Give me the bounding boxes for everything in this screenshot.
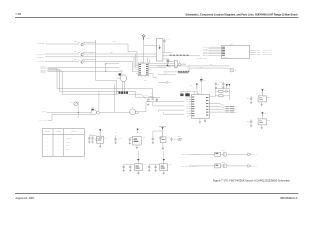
- supply arrow mic bias: [196, 84, 198, 86]
- U561 grounds: [123, 169, 125, 170]
- svg-text:EN: EN: [187, 115, 189, 117]
- svg-text:CR401: CR401: [145, 95, 149, 97]
- svg-text:OPT SEL 2: OPT SEL 2: [55, 131, 61, 133]
- svg-text:SEC CLK SEL: SEC CLK SEL: [263, 54, 273, 56]
- svg-text:SPI CS MOSI: SPI CS MOSI: [37, 61, 45, 63]
- IC U402: [138, 63, 149, 76]
- wire U402 to J401 b: [152, 65, 171, 67]
- capacitor C563: [148, 165, 150, 167]
- svg-text:Q562: Q562: [222, 162, 225, 164]
- svg-text:SSI RDY: SSI RDY: [41, 72, 47, 74]
- capacitor C455 polarized: [200, 79, 203, 80]
- transistor Q401: [178, 63, 181, 66]
- U404 bottom stub 2: [204, 118, 206, 120]
- svg-text:VBUS: VBUS: [235, 106, 238, 108]
- svg-text:R471: R471: [119, 137, 122, 139]
- supply arrow for U551: [261, 89, 263, 91]
- svg-text:U402: U402: [140, 61, 143, 63]
- C458 ground: [152, 142, 154, 143]
- option select table: [42, 129, 84, 157]
- wire bend right: [96, 80, 117, 82]
- svg-text:No Secure: No Secure: [66, 138, 72, 140]
- stage 3 output wire: [84, 60, 133, 62]
- svg-text:U552: U552: [267, 120, 270, 122]
- supply arrow Q451: [99, 129, 101, 131]
- IC U451 body: [222, 45, 250, 58]
- svg-text:C425: C425: [169, 61, 172, 63]
- diode VR402 diamond: [225, 90, 228, 93]
- junction ticks: [105, 63, 107, 65]
- capacitor C425: [166, 59, 168, 61]
- svg-text:U462: U462: [143, 136, 146, 138]
- block out wire upper: [129, 91, 136, 93]
- capacitor C456: [215, 82, 217, 84]
- IC U404 body: [192, 94, 210, 118]
- svg-text:R523: R523: [113, 41, 116, 43]
- audio wire extension: [138, 111, 164, 113]
- transistor stage 526: [81, 61, 84, 64]
- mid wire with diamond: [157, 65, 189, 67]
- cluster wires: [147, 98, 149, 100]
- filter frame wires: [215, 88, 229, 90]
- bus wire 1: [48, 66, 120, 68]
- filter FL402: [91, 110, 96, 115]
- output wire Q562: [227, 165, 248, 167]
- svg-text:FUNCTION: FUNCTION: [71, 131, 77, 133]
- diode CR452: [171, 137, 173, 139]
- microphone MK401: [230, 68, 234, 72]
- supply arrow U561: [137, 159, 139, 161]
- bus wire 3 with bend: [48, 68, 58, 70]
- svg-text:VCC: VCC: [186, 96, 188, 98]
- transistor stage 522: [81, 43, 84, 46]
- capacitor C551: [250, 96, 252, 98]
- svg-text:OPT SEL 1: OPT SEL 1: [45, 131, 51, 133]
- wire to U404 pin 2: [152, 102, 154, 106]
- bypass rail wire: [181, 90, 198, 92]
- svg-text:SPKR 1+: SPKR 1+: [252, 154, 257, 156]
- capacitor C472: [129, 137, 131, 139]
- capacitor C457: [222, 82, 224, 84]
- capacitor C441: [156, 98, 158, 100]
- junction vertical: [105, 64, 107, 72]
- driver Q562: [215, 164, 221, 168]
- svg-text:6816953E01-A: 6816953E01-A: [280, 196, 298, 200]
- svg-text:C406: C406: [166, 39, 169, 41]
- regulator U551: [258, 96, 267, 102]
- U462 grounds: [129, 142, 131, 143]
- svg-text:U404: U404: [197, 93, 200, 95]
- svg-text:R526: R526: [74, 59, 77, 61]
- U402 bottom pins: [141, 76, 143, 78]
- svg-text:E401: E401: [147, 38, 150, 40]
- svg-text:MOSI SEL: MOSI SEL: [37, 43, 45, 45]
- supply rail Q452: [159, 126, 166, 128]
- wire y74: [158, 74, 176, 76]
- svg-text:H: H: [47, 142, 48, 144]
- pot riser: [77, 101, 79, 118]
- svg-text:FL402: FL402: [91, 107, 94, 109]
- supply wire U562: [163, 151, 165, 159]
- stage 2 feedback wire: [83, 51, 96, 53]
- svg-text:August 24, 2007: August 24, 2007: [15, 196, 34, 200]
- input wire Q561: [189, 153, 215, 155]
- svg-text:R441: R441: [165, 73, 168, 75]
- svg-text:SEC PWR: SEC PWR: [252, 54, 260, 56]
- audio pair wire 2: [189, 67, 229, 69]
- wire audio plus: [47, 111, 91, 113]
- regulator U552: [258, 119, 267, 125]
- output wire Q561: [227, 153, 248, 155]
- cluster ground: [147, 103, 149, 104]
- svg-text:H: H: [58, 145, 59, 147]
- wire to U404 pin 3: [158, 110, 160, 112]
- stage 1 output wire: [84, 43, 128, 45]
- U551 grounds: [250, 101, 252, 102]
- IC U561: [135, 164, 143, 171]
- U402 step wire: [149, 73, 153, 75]
- svg-text:SEC CLK: SEC CLK: [252, 52, 260, 54]
- svg-text:USB: USB: [66, 145, 69, 147]
- Q451 grounds: [99, 145, 101, 146]
- header rule: [15, 17, 298, 18]
- svg-text:Debug: Debug: [66, 149, 70, 151]
- svg-text:SEC RST: SEC RST: [203, 55, 208, 57]
- FL403 output wire: [138, 111, 146, 113]
- svg-text:H: H: [58, 138, 59, 140]
- wire to U404 pin 1: [145, 102, 147, 112]
- loop wire: [153, 130, 163, 132]
- diode CR402: [152, 97, 154, 99]
- resistor network block: [117, 91, 119, 93]
- C471 ground: [115, 142, 117, 143]
- svg-text:R444: R444: [170, 82, 173, 84]
- pair vertical: [188, 66, 190, 72]
- svg-text:C452: C452: [210, 64, 213, 66]
- inductor L402: [219, 90, 223, 92]
- capacitor C459: [92, 136, 94, 138]
- output connector SPKR 1-: [248, 165, 251, 168]
- vertical feedback bus: [95, 40, 97, 80]
- svg-text:L402: L402: [221, 85, 224, 87]
- svg-text:SPI MISO CLK: SPI MISO CLK: [37, 57, 45, 59]
- wire to U404 pin 4: [163, 112, 165, 114]
- svg-text:C471: C471: [115, 131, 118, 133]
- input wire Q562: [189, 165, 215, 167]
- switch row wire with pin labels: [163, 55, 200, 57]
- capacitor C421 arrow: [167, 65, 169, 67]
- svg-text:SPI MOSI CLK: SPI MOSI CLK: [37, 54, 45, 56]
- U404 top stubs: [194, 91, 196, 94]
- antenna branch wire: [144, 45, 157, 47]
- svg-text:Q401: Q401: [182, 63, 185, 65]
- U402 left pin connections: [136, 52, 138, 66]
- svg-text:R456: R456: [167, 136, 170, 138]
- bus wire 2: [48, 70, 120, 72]
- svg-text:R522: R522: [74, 41, 77, 43]
- svg-text:U551: U551: [267, 97, 270, 99]
- IC U562: [160, 164, 168, 171]
- svg-text:Q561: Q561: [222, 150, 225, 152]
- svg-text:CR452: CR452: [177, 136, 181, 138]
- svg-text:7-158: 7-158: [15, 14, 21, 16]
- capacitor C406: [163, 39, 165, 41]
- pot R461: [74, 102, 78, 106]
- supply arrow L402: [226, 84, 228, 86]
- svg-text:SPKR 1-: SPKR 1-: [252, 165, 257, 167]
- wire U402 to J401 c: [152, 67, 167, 69]
- antenna switch SW401: [157, 39, 163, 62]
- junction branch wire: [106, 63, 119, 65]
- transistor Q451: [97, 136, 104, 143]
- svg-text:Schematics, Component Location: Schematics, Component Location Diagrams,…: [186, 13, 298, 16]
- svg-text:Key Only: Key Only: [66, 142, 71, 144]
- filter FL403: [130, 109, 136, 115]
- capacitor C562: [155, 165, 157, 167]
- capacitor C460: [88, 136, 90, 138]
- wire run lower: [164, 71, 189, 73]
- U562 grounds: [148, 169, 150, 170]
- U451 right wires: [250, 50, 253, 52]
- FL402 riser: [98, 92, 100, 112]
- svg-text:CLK: CLK: [186, 106, 188, 108]
- wire row 3 long: [45, 56, 157, 58]
- svg-text:GND: GND: [235, 112, 238, 114]
- svg-text:U561: U561: [143, 163, 146, 165]
- switch wire row 3: [163, 58, 169, 60]
- diode CR401: [147, 100, 149, 102]
- filter FL401: [120, 75, 127, 82]
- svg-text:R525: R525: [110, 52, 113, 54]
- audio pair wire 1: [189, 65, 229, 67]
- svg-text:C455: C455: [203, 80, 206, 82]
- U552 grounds: [250, 124, 252, 125]
- vertical into U402 a: [147, 58, 149, 64]
- svg-text:H: H: [47, 138, 48, 140]
- svg-text:C440: C440: [151, 93, 154, 95]
- svg-text:SEC INT: SEC INT: [252, 50, 261, 52]
- supply arrow for U552: [261, 112, 263, 114]
- capacitor C560: [123, 165, 125, 167]
- supply arrow C457: [228, 84, 230, 86]
- stage 2 output wire: [84, 53, 157, 55]
- Q452 ground: [162, 143, 164, 147]
- U404 right bus wires: [209, 102, 219, 104]
- connector J401: [175, 60, 178, 67]
- bus wire 5 with bend: [48, 70, 63, 72]
- supply arrow U562: [163, 159, 165, 161]
- supply wire U561: [137, 151, 139, 159]
- bus wire 4 with bend: [48, 69, 60, 71]
- capacitor C552: [250, 119, 252, 121]
- switch arrow: [159, 47, 161, 49]
- capacitor C471: [115, 137, 117, 139]
- antenna feed wire: [143, 40, 145, 63]
- wire audio rtn: [48, 119, 52, 121]
- output connector SPKR 1+: [248, 153, 251, 156]
- antenna symbol: [143, 37, 145, 40]
- svg-text:SECURE: SECURE: [223, 57, 228, 59]
- vertical into U402 b: [148, 60, 150, 64]
- footer rule: [15, 193, 298, 194]
- block out wire lower: [129, 93, 142, 95]
- IC U462: [133, 136, 142, 145]
- svg-text:RST: RST: [186, 113, 188, 115]
- svg-text:U562: U562: [169, 163, 172, 165]
- svg-text:FL403: FL403: [130, 107, 133, 109]
- svg-text:R461: R461: [70, 102, 73, 104]
- supply arrow U462: [137, 129, 139, 131]
- svg-text:GND: GND: [186, 99, 189, 101]
- wire from U404 to filter: [209, 95, 215, 97]
- switch wire row 1: [163, 52, 172, 54]
- svg-text:SEC BOOT MODE: SEC BOOT MODE: [197, 57, 207, 59]
- wire U402 to J401 a: [152, 63, 171, 65]
- capacitor C462: [185, 93, 189, 96]
- capacitor C561: [129, 165, 131, 167]
- driver Q561: [215, 152, 221, 156]
- svg-text:Figure 7-170. FM2 F4035K Secur: Figure 7-170. FM2 F4035K Secure UCAP0123…: [213, 179, 291, 183]
- vertical link: [113, 84, 115, 113]
- transistor stage 524: [81, 53, 84, 56]
- capacitor C461: [180, 94, 183, 97]
- capacitor C427: [168, 59, 170, 61]
- transistor Q452: [160, 137, 166, 143]
- svg-text:U451: U451: [230, 44, 233, 46]
- svg-text:C418: C418: [144, 79, 147, 81]
- U404 bottom ground: [199, 118, 201, 120]
- svg-text:Q451: Q451: [104, 137, 107, 139]
- bus row 1 extension: [119, 88, 153, 90]
- switch aux wire: [158, 81, 166, 83]
- stage 3 feedback wire: [83, 59, 96, 61]
- svg-text:R447: R447: [200, 67, 203, 69]
- stage 1 feedback wire: [83, 41, 96, 43]
- audio link wire: [100, 111, 130, 113]
- capacitor C458: [152, 137, 154, 139]
- svg-text:R524: R524: [74, 51, 77, 53]
- wire audio minus: [52, 113, 91, 115]
- inductor L403: [219, 95, 223, 97]
